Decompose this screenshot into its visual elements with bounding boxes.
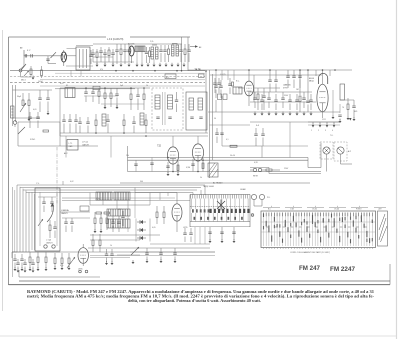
step wires right — [222, 145, 262, 147]
tuning box extra verticals — [39, 192, 41, 246]
ground G1 — [32, 78, 35, 80]
wire V7 top — [176, 193, 178, 204]
switch S1 arm — [51, 52, 57, 58]
ground row bottom — [14, 269, 17, 271]
ground row bottom 2 — [54, 268, 57, 270]
wire power top rail — [250, 91, 312, 93]
tuning mid comps — [49, 225, 51, 231]
T2 interior extra — [162, 92, 164, 125]
bottom extra resistors — [54, 258, 56, 264]
switch bank vertical wires — [191, 199, 193, 210]
wire vertical pair right — [209, 70, 211, 178]
coil T2 secondary — [168, 95, 173, 109]
ground G6 — [47, 113, 50, 115]
jack J1 — [13, 121, 17, 125]
transformer T1a coils — [151, 47, 154, 59]
ground row bottom 3 — [17, 271, 20, 273]
small box mf line — [93, 86, 100, 89]
wire chassis line 3 — [40, 79, 205, 81]
svg-text:FONO: FONO — [30, 139, 36, 141]
tube V7 UCH81 — [172, 204, 182, 221]
svg-text:6TP17: 6TP17 — [283, 88, 288, 90]
component pair 230 — [228, 83, 231, 85]
table top tick band — [263, 213, 265, 217]
svg-text:S1: S1 — [66, 85, 68, 87]
tuning arc arrow — [47, 204, 53, 222]
resistor rows det — [94, 218, 96, 224]
svg-text:EL84: EL84 — [309, 78, 315, 80]
resistor R16 — [299, 96, 301, 102]
wire rail 104 mid — [101, 103, 144, 105]
vertical 290 drop — [289, 146, 291, 158]
wire bus step right — [307, 158, 309, 168]
svg-text:732: 732 — [157, 145, 162, 148]
capacitor C20 — [121, 215, 124, 217]
caps mid bottom — [145, 252, 148, 254]
tone pot arrow — [67, 257, 75, 268]
svg-text:47k: 47k — [100, 69, 103, 71]
verticals through band — [65, 136, 67, 158]
resistor R20 — [156, 212, 158, 218]
ground G14 — [209, 241, 212, 243]
resistor R1b — [41, 70, 43, 76]
cluster pentode grid — [84, 91, 87, 93]
wire cluster drop — [23, 56, 25, 66]
transformer box T0 — [76, 47, 90, 70]
diode D1 — [140, 220, 143, 224]
capacitor C22 — [189, 232, 192, 234]
capacitor C1 — [24, 54, 26, 57]
ground G5 — [28, 119, 31, 121]
svg-text:0,05: 0,05 — [152, 227, 156, 229]
svg-text:0,1: 0,1 — [226, 139, 229, 141]
ground G8 — [167, 174, 170, 176]
speaker SP1 — [323, 147, 330, 154]
wire vertical 206 — [205, 71, 207, 133]
wire below switch — [20, 72, 22, 77]
wire rail 200 lower — [62, 200, 190, 202]
svg-text:50+50: 50+50 — [230, 155, 235, 157]
tuning top comps — [42, 201, 45, 203]
phono jacks — [251, 194, 256, 199]
det hatched can A — [96, 192, 112, 200]
table outer box — [261, 211, 376, 248]
caps under bank — [208, 231, 211, 233]
det hatched can B — [114, 192, 130, 200]
transformer T3 can — [186, 92, 207, 130]
capacitor C12 — [36, 116, 39, 118]
wire V3 top — [172, 136, 174, 147]
wire bus 112 right — [208, 111, 340, 113]
svg-text:A.P.: A.P. — [379, 208, 383, 211]
wire box-tube links — [67, 48, 77, 50]
wire bus left connector — [127, 146, 129, 172]
wire mf line — [55, 88, 135, 90]
det caps cluster — [64, 221, 67, 223]
svg-text:ECC85: ECC85 — [128, 44, 135, 46]
wire rail 88 right — [254, 87, 280, 89]
tube V4 driver — [192, 144, 203, 161]
tube V1 UHF triode — [61, 52, 66, 62]
resistor R10 — [28, 100, 30, 106]
components 93-113 top — [91, 52, 94, 54]
svg-text:OC40: OC40 — [334, 209, 339, 211]
oscillator cluster — [130, 94, 132, 100]
svg-text:RETE: RETE — [253, 176, 259, 178]
left edge verticals lower — [12, 187, 14, 277]
wire bus bottom long — [128, 171, 322, 173]
tuning gang box — [35, 188, 60, 251]
switch bank bottom rail — [190, 221, 250, 223]
wire V3 pins — [167, 162, 169, 173]
wire loop sides — [315, 70, 317, 76]
wire speaker leads — [326, 154, 328, 171]
wire rail 212 left — [60, 211, 90, 213]
table vertical grid — [263, 213, 265, 247]
svg-text:P.U.: P.U. — [267, 197, 271, 199]
resistor R14 — [43, 130, 49, 132]
wire block bottom — [18, 145, 98, 147]
stubs under cans — [95, 114, 97, 120]
small box rails 200 — [199, 74, 205, 78]
phono marker — [251, 214, 254, 217]
resistor R5 — [168, 49, 170, 55]
wire V8 rails — [88, 247, 140, 249]
wire chassis line 1b — [55, 72, 205, 74]
switch bank scallop rail — [190, 206, 250, 208]
tube V6 EL84 — [317, 84, 328, 112]
svg-text:0,02: 0,02 — [70, 181, 74, 183]
wire lower rail — [120, 182, 310, 184]
terminal strip left — [11, 106, 15, 118]
wire stub grounds — [136, 52, 138, 64]
components above V8 — [92, 240, 94, 246]
diode D2 — [140, 228, 143, 232]
wire loom bundle — [17, 184, 205, 186]
components 181-189 — [179, 49, 182, 51]
wire left column verticals — [12, 85, 14, 126]
svg-text:L.F.2 (CARUTI): L.F.2 (CARUTI) — [107, 38, 124, 41]
ground row FM band — [96, 65, 99, 67]
svg-text:T.U.: T.U. — [330, 135, 334, 137]
resistor network R11-R13 — [104, 93, 106, 99]
switch bank dark contacts — [210, 209, 212, 213]
svg-text:470k: 470k — [96, 198, 100, 200]
coil small B — [140, 113, 144, 125]
wire tube to box — [67, 55, 77, 57]
svg-text:3: 3 — [325, 130, 326, 132]
wire loom right steps — [192, 193, 194, 196]
ground row power — [254, 114, 257, 116]
svg-text:B.I.: B.I. — [268, 209, 271, 211]
wire cluster rail — [60, 87, 150, 89]
wire taps rail — [308, 121, 340, 123]
svg-text:8+8: 8+8 — [256, 125, 259, 127]
label LF2 CARUTI top border — [106, 36, 130, 40]
wire chassis dashed 4 — [10, 82, 205, 84]
V8 base circles — [79, 270, 82, 273]
tube V8 magic eye — [78, 248, 88, 264]
svg-text:L.T.(2): L.T.(2) — [46, 240, 51, 242]
wire antenna stub — [23, 50, 25, 56]
resistor R15 — [257, 94, 259, 100]
comb B lower drops — [194, 227, 196, 244]
table aux box — [378, 211, 388, 246]
svg-text:300: 300 — [140, 181, 143, 183]
wire speaker feed step — [250, 167, 269, 169]
caps on 146 line — [254, 133, 257, 135]
bottom row caps — [13, 258, 16, 260]
wire top right bus — [188, 69, 352, 71]
resistors horiz det — [96, 212, 102, 214]
stub caps 91 — [89, 54, 92, 56]
switch bank top rail — [190, 194, 250, 196]
svg-text:CORR. COLLEGAMENTI DEI TASTI: CORR. COLLEGAMENTI DEI TASTI (R. 24/47) — [290, 251, 330, 254]
svg-text:CAR.: CAR. — [69, 145, 74, 148]
tube V5 UABC80 — [244, 81, 253, 96]
bottom extra caps row2 — [16, 262, 19, 264]
tube V3 EABC80 — [167, 147, 178, 164]
transformer hatched can — [135, 46, 145, 52]
frame bottom border — [9, 284, 391, 286]
caps under top bus — [286, 75, 289, 77]
svg-text:1k: 1k — [110, 245, 112, 247]
caps 268-280 — [268, 79, 271, 81]
svg-text:5k: 5k — [200, 177, 202, 179]
trimmers T2 — [175, 99, 178, 101]
wire det mid — [90, 234, 160, 236]
wire rail 252 mid — [130, 251, 215, 253]
svg-text:4: 4 — [332, 130, 333, 132]
svg-text:FM 2247: FM 2247 — [330, 266, 356, 273]
svg-text:B+2: B+2 — [166, 77, 169, 79]
wire bus 102 — [250, 101, 316, 103]
wire loom corner — [12, 251, 17, 253]
wire loom extra verticals — [31, 192, 33, 250]
frame right stub — [389, 264, 391, 285]
wire V6 plate — [322, 70, 324, 84]
caps right of V8 — [105, 253, 108, 255]
wire vertical connector 63 — [62, 181, 64, 185]
pot arrow bottom left — [131, 247, 139, 255]
tuning box bottom circles — [44, 245, 47, 248]
wire block left boundary — [59, 88, 61, 146]
capacitor C2 — [30, 54, 32, 57]
ground row right — [332, 117, 335, 119]
wire antenna input — [24, 55, 62, 57]
wire rail 244 right — [150, 243, 210, 245]
extra caps mid block — [78, 121, 81, 123]
capacitor C11 — [28, 116, 31, 118]
svg-text:S.C.: S.C. — [236, 81, 240, 83]
svg-text:L.MEDIA: L.MEDIA — [61, 209, 69, 212]
wire 146 extension — [262, 145, 308, 147]
wire V4 pins — [192, 159, 194, 172]
resistor R21 — [163, 212, 165, 218]
transformer T4 box — [233, 87, 242, 94]
transformer T2 dashed can — [152, 88, 183, 130]
box oscillator label — [67, 140, 78, 151]
svg-text:2,2k: 2,2k — [150, 41, 153, 43]
potentiometer arrow small — [24, 71, 29, 77]
small boxes under — [218, 94, 222, 100]
hatch box saldatura — [208, 163, 218, 177]
box right small — [340, 84, 345, 100]
bus stub comps — [135, 160, 137, 171]
wire rail 57 — [93, 56, 113, 58]
svg-text:CARUTI: CARUTI — [46, 241, 53, 244]
svg-text:1: 1 — [311, 130, 312, 132]
capacitor C13 — [214, 85, 217, 87]
svg-text:50: 50 — [214, 118, 216, 120]
wire V5 conn — [248, 70, 250, 81]
junction dots top bus — [248, 69, 250, 71]
V3 pin comps — [166, 165, 169, 167]
transformer T1b coils — [172, 45, 175, 56]
diode D3 — [140, 236, 143, 240]
wire chassis line 1 — [10, 70, 205, 72]
junction dots mid block — [85, 87, 87, 89]
cluster caps 215 — [213, 82, 216, 84]
resistor R9 — [22, 100, 24, 106]
wire rail 198 ext — [95, 197, 175, 199]
svg-text:GRAM.: GRAM. — [240, 188, 246, 191]
wire 125 left segment — [210, 124, 251, 126]
capacitor C21 — [183, 232, 186, 234]
svg-text:TA.(B) 1000Ω: TA.(B) 1000Ω — [203, 185, 215, 188]
page edge left — [2, 30, 4, 311]
wire under bank — [209, 227, 211, 240]
wire det rails — [62, 197, 95, 199]
terminal arrow AF — [190, 46, 195, 48]
svg-text:C.V.: C.V. — [36, 183, 40, 185]
extra verticals det — [127, 209, 129, 232]
V4 pin comps — [191, 163, 194, 165]
fuse F1 — [266, 169, 272, 171]
junction dots bus — [172, 171, 174, 173]
table mid rails — [261, 221, 376, 223]
comb A lower row — [107, 219, 130, 228]
caps row left 64-76 — [62, 119, 65, 121]
label box am — [80, 206, 89, 211]
svg-text:VOL.: VOL. — [60, 265, 65, 267]
wire rail 96 mid — [84, 95, 118, 97]
resistor R1 — [30, 69, 32, 75]
cap 340 — [338, 114, 341, 116]
dark junction star — [217, 201, 225, 209]
svg-text:1k: 1k — [146, 85, 148, 87]
wire V8 leads — [82, 244, 84, 248]
wire bus lower — [128, 159, 309, 161]
power bus drops — [215, 70, 217, 80]
capacitor C8b — [163, 49, 166, 51]
capacitor C14 — [219, 85, 222, 87]
terminal arrows taps — [312, 122, 314, 125]
capacitor C9 — [38, 97, 41, 99]
components 116-129 — [115, 49, 118, 51]
svg-text:5111: 5111 — [322, 119, 326, 121]
wire bus upper — [128, 157, 309, 159]
tube V2 ECC85 front — [129, 46, 134, 56]
switch S2 cluster — [19, 69, 22, 72]
wire bottom rail — [12, 251, 60, 253]
svg-text:CARUTI: CARUTI — [61, 212, 68, 215]
svg-text:MULT.: MULT. — [21, 79, 27, 81]
junction stub — [47, 56, 49, 64]
wire top rail mid — [93, 43, 182, 45]
svg-text:6BQ5: 6BQ5 — [309, 81, 314, 83]
comb A upper row — [107, 209, 130, 216]
switch arm block — [18, 127, 25, 134]
wire chassis dashed 2 — [10, 76, 205, 78]
svg-text:metri; Media frequenza AM a 47: metri; Media frequenza AM a 475 kc/s; me… — [27, 295, 375, 299]
svg-text:L.F. (2): L.F. (2) — [82, 142, 88, 144]
wire drops from loom bundle — [89, 193, 91, 206]
svg-text:OC31: OC31 — [312, 209, 317, 211]
wire drop vertical A — [181, 37, 183, 71]
row under cans — [95, 120, 97, 126]
wire rail 240 — [90, 239, 140, 241]
resistor on 146 line — [230, 145, 237, 147]
coil T2 primary — [155, 95, 160, 109]
svg-text:RAYMOND (CARUTI) - Modd. FM 24: RAYMOND (CARUTI) - Modd. FM 247 e FM 224… — [27, 290, 374, 294]
svg-text:FM 247: FM 247 — [299, 265, 321, 272]
wire rail 2555 ext — [90, 255, 215, 257]
page edge right — [396, 0, 398, 339]
pot arrow left of box — [38, 219, 43, 226]
junction dots rail 70 — [115, 70, 117, 72]
svg-text:O.M.: O.M. — [290, 209, 295, 211]
switch bank lower marks — [194, 217, 196, 220]
coil small A — [102, 114, 106, 126]
ground G7 — [104, 107, 107, 109]
svg-text:6V6: 6V6 — [354, 111, 357, 113]
speaker box 1 dashed — [320, 142, 333, 159]
power cluster elements — [253, 97, 256, 99]
vertical 254 — [253, 75, 255, 102]
svg-text:A.P.: A.P. — [348, 150, 352, 153]
mid-right verticals — [215, 100, 217, 112]
resistor R17 — [347, 104, 349, 110]
svg-text:0,5M: 0,5M — [186, 167, 190, 169]
svg-text:0,01: 0,01 — [33, 109, 37, 111]
svg-text:MF2: MF2 — [118, 209, 122, 211]
svg-text:B.17: B.17 — [27, 50, 31, 52]
wire long rail 252 — [12, 251, 215, 253]
dash-dot alignment line — [56, 147, 58, 204]
svg-text:deltà, con tre altoparlanti. P: deltà, con tre altoparlanti. Potenza d’u… — [128, 299, 261, 303]
wire bus 125 short — [308, 124, 340, 126]
wire left col horizontals — [13, 89, 53, 91]
wire mid rails — [60, 132, 208, 134]
wire to tube V7 — [135, 192, 177, 194]
svg-text:AL TELAIO: AL TELAIO — [213, 181, 223, 184]
wire drop vertical B — [187, 37, 189, 71]
svg-text:TA.TB: TA.TB — [195, 68, 201, 71]
capacitor C16 — [306, 100, 309, 102]
switch bank sides — [189, 195, 191, 228]
page edge bottom — [0, 335, 396, 337]
coil can S1 — [65, 88, 75, 98]
svg-text:2: 2 — [318, 130, 319, 132]
speaker box 2 dashed — [334, 142, 347, 161]
bottom row resistors — [29, 257, 31, 263]
wire rail 248 mid — [140, 247, 210, 249]
table header brackets — [263, 206, 280, 208]
terminal arrow right — [349, 118, 352, 121]
caps on 222 wire — [215, 132, 218, 134]
svg-text:FONO: FONO — [356, 209, 362, 211]
